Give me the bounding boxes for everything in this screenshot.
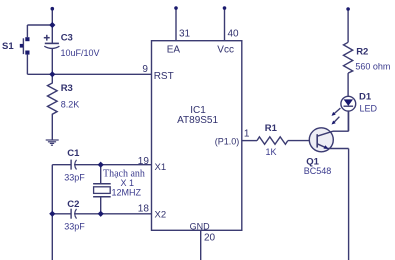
svg-text:LED: LED bbox=[360, 103, 378, 113]
svg-text:BC548: BC548 bbox=[304, 166, 332, 176]
svg-text:10uF/10V: 10uF/10V bbox=[61, 48, 100, 58]
svg-text:8.2K: 8.2K bbox=[61, 99, 80, 109]
svg-text:GND: GND bbox=[190, 221, 211, 231]
svg-text:12MHZ: 12MHZ bbox=[112, 187, 142, 197]
svg-text:31: 31 bbox=[179, 29, 191, 40]
svg-text:R2: R2 bbox=[356, 46, 368, 57]
svg-text:18: 18 bbox=[138, 204, 150, 215]
svg-text:C2: C2 bbox=[67, 199, 79, 210]
svg-text:1: 1 bbox=[244, 129, 250, 140]
svg-text:(P1.0): (P1.0) bbox=[215, 136, 240, 146]
svg-text:C1: C1 bbox=[67, 148, 80, 159]
svg-text:C3: C3 bbox=[61, 33, 73, 44]
svg-text:S1: S1 bbox=[2, 41, 14, 52]
svg-text:R3: R3 bbox=[61, 83, 73, 94]
svg-text:33pF: 33pF bbox=[64, 173, 85, 183]
svg-text:RST: RST bbox=[154, 71, 174, 82]
svg-text:EA: EA bbox=[167, 45, 181, 56]
svg-text:Vcc: Vcc bbox=[217, 45, 234, 56]
svg-text:AT89S51: AT89S51 bbox=[177, 115, 218, 126]
svg-text:33pF: 33pF bbox=[64, 222, 85, 232]
svg-text:R1: R1 bbox=[265, 123, 278, 134]
svg-text:20: 20 bbox=[204, 232, 216, 243]
svg-text:19: 19 bbox=[138, 156, 150, 167]
svg-text:X1: X1 bbox=[155, 162, 167, 173]
svg-text:X2: X2 bbox=[155, 210, 167, 221]
svg-text:40: 40 bbox=[228, 29, 240, 40]
svg-text:1K: 1K bbox=[266, 147, 277, 157]
svg-text:D1: D1 bbox=[359, 91, 372, 102]
svg-text:9: 9 bbox=[142, 64, 148, 75]
svg-text:560 ohm: 560 ohm bbox=[355, 61, 390, 71]
